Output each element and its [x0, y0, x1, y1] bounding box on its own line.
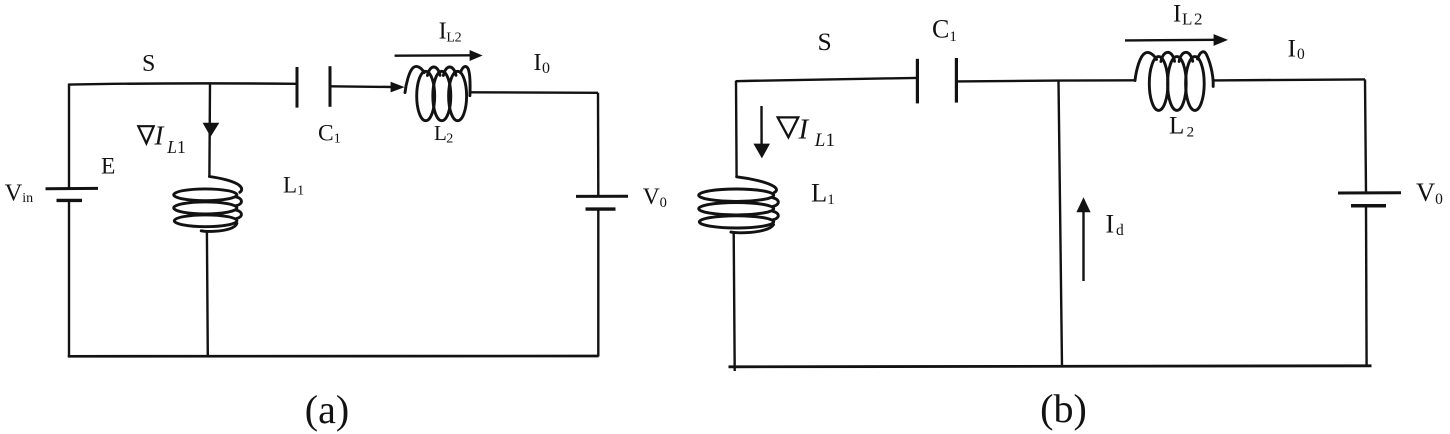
label nabla I_L1 (a) [138, 121, 185, 158]
svg-text:d: d [1116, 222, 1124, 239]
svg-text:L1: L1 [811, 178, 835, 208]
svg-text:2: 2 [455, 30, 462, 45]
wire: right vertical upper (b) [1365, 79, 1366, 192]
svg-text:I: I [534, 50, 542, 76]
inductor L2 (b) [1135, 52, 1213, 111]
svg-text:I: I [1173, 1, 1181, 28]
wire: right vertical lower (a) [597, 209, 599, 356]
svg-text:2: 2 [446, 131, 453, 146]
svg-text:(b): (b) [1040, 386, 1087, 431]
battery E / Vin (a) long plate [46, 187, 99, 190]
inductor L1 (a) [174, 177, 242, 232]
svg-text:Vin: Vin [5, 179, 34, 206]
capacitor C1 (b) left plate [916, 59, 919, 104]
svg-text:(a): (a) [305, 387, 349, 432]
wire: left vertical (b) [735, 81, 738, 177]
svg-text:E: E [101, 154, 115, 180]
capacitor C1 (b) right plate [955, 58, 958, 103]
wire: right vertical lower (b) [1365, 206, 1368, 366]
svg-text:L: L [166, 137, 177, 157]
inductor L2 (a) [405, 66, 470, 120]
svg-text:I: I [1106, 210, 1115, 239]
svg-text:1: 1 [177, 137, 186, 157]
svg-text:I: I [798, 113, 810, 145]
label nabla I_L1 (b) [778, 113, 835, 151]
wire: left vertical upper (a) [68, 84, 70, 189]
svg-text:L: L [434, 121, 447, 145]
inductor L1 (b) [699, 177, 779, 233]
battery V0 (a) long plate [576, 195, 628, 198]
arrow I_L2 (b) [1125, 34, 1228, 46]
svg-text:L: L [1169, 112, 1184, 139]
svg-text:0: 0 [1297, 46, 1305, 63]
wire: left vertical lower (a) [68, 201, 70, 358]
svg-text:L: L [1182, 9, 1192, 28]
svg-text:L: L [814, 130, 826, 151]
svg-text:2: 2 [1187, 124, 1195, 140]
battery V0 (b) long plate [1338, 191, 1401, 194]
svg-text:0: 0 [542, 60, 550, 77]
svg-text:S: S [142, 51, 155, 77]
arrow I_L2 (a) [395, 50, 483, 61]
wire: middle vertical junction to bottom (b) [1059, 81, 1063, 367]
wire: C1 to L2 with arrowhead (a) [330, 85, 392, 88]
wire: L1 to bottom (a) [206, 232, 209, 357]
wire: C1 to junction to L2 (b) [956, 80, 1135, 81]
svg-text:V0: V0 [643, 184, 667, 211]
svg-text:S: S [818, 27, 832, 56]
battery V0 (b) short plate [1351, 204, 1386, 208]
svg-text:C1: C1 [932, 15, 957, 45]
wire: top wire circuit b (node S) [736, 78, 917, 81]
wire: branch from node S down to L1 (a) [208, 84, 211, 177]
arrow: del I_L1 direction (b) [753, 106, 770, 158]
wire: bottom wire (b) [729, 366, 1372, 367]
svg-text:C1: C1 [318, 120, 341, 146]
wire: bottom wire (a) [68, 355, 599, 358]
battery V0 (a) short plate [586, 207, 616, 210]
svg-text:I: I [154, 121, 166, 151]
capacitor C1 (a) left plate [296, 67, 299, 108]
svg-text:L1: L1 [283, 172, 304, 198]
svg-text:I: I [1288, 34, 1297, 63]
wire: L2 to right vertical (a) [470, 91, 599, 94]
wire: right vertical upper (a) [597, 93, 600, 196]
svg-text:1: 1 [826, 130, 836, 151]
wire: top wire circuit a (node S) [69, 83, 296, 84]
svg-text:V0: V0 [1416, 177, 1443, 208]
arrow I_d (b) [1076, 197, 1090, 281]
svg-text:2: 2 [1194, 9, 1203, 28]
arrowhead: wire into L2 (a) [391, 82, 405, 93]
svg-text:I: I [439, 19, 447, 45]
wire: L1 to bottom (b) [734, 233, 735, 371]
capacitor C1 (a) right plate [329, 66, 332, 107]
arrowhead: current direction into L1 (a) [203, 123, 220, 137]
wire: L2 to right vertical (b) [1213, 79, 1365, 80]
battery E / Vin (a) short plate [57, 199, 83, 202]
